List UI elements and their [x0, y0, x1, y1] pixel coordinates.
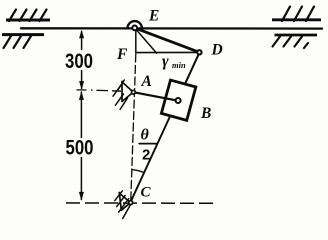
ground left lower hatching	[4, 36, 32, 48]
svg-text:γ: γ	[162, 53, 169, 70]
dashed horizontal line through C	[66, 202, 213, 204]
link DC upper segment	[185, 55, 199, 84]
svg-text:B: B	[200, 105, 211, 122]
ground left top bar	[6, 19, 50, 22]
svg-text:300: 300	[65, 49, 93, 73]
arc bump over pivot E	[128, 21, 142, 28]
svg-text:D: D	[211, 41, 223, 58]
svg-text:min: min	[172, 60, 186, 70]
svg-text:C: C	[141, 185, 152, 201]
ground left lower bar	[2, 33, 44, 36]
ground right top bar	[272, 18, 321, 21]
link ED (rocker limit position)	[135, 28, 200, 52]
pivot support A legs	[122, 81, 133, 101]
pin E	[132, 26, 137, 31]
link DC lower segment to C	[131, 116, 170, 202]
pivot support C hatching	[115, 191, 131, 219]
svg-text:F: F	[116, 46, 128, 63]
svg-text:2: 2	[142, 147, 150, 164]
wire ceiling frame line	[21, 27, 322, 30]
pin B	[176, 98, 181, 103]
dimension line 500 segment with arrows	[80, 92, 82, 200]
svg-text:E: E	[148, 8, 159, 25]
pin A	[132, 90, 136, 94]
angle arc theta/2 at C	[132, 170, 144, 173]
ground left upper hatching	[9, 10, 47, 22]
svg-text:θ: θ	[141, 126, 150, 143]
wire FD horizontal	[136, 51, 199, 53]
fraction bar of theta/2	[139, 143, 157, 145]
ground right lower hatching	[273, 37, 309, 49]
wire EF vertical	[135, 30, 137, 53]
dimension line 300 upper segment with arrow	[81, 32, 83, 89]
svg-text:500: 500	[66, 135, 94, 159]
pin D	[197, 50, 201, 54]
pivot support C legs	[119, 193, 130, 211]
centerline F to C dashed	[131, 54, 136, 200]
dash-dot centerline through A	[77, 90, 122, 91]
svg-text:A: A	[141, 73, 152, 90]
crank AB	[133, 92, 175, 100]
ground right upper hatching	[282, 7, 314, 22]
slider block B	[161, 80, 195, 120]
wire E to gamma vertex	[135, 28, 157, 53]
pin C	[129, 201, 133, 205]
ground right lower bar	[275, 34, 318, 37]
pivot support A hatching	[113, 80, 128, 109]
